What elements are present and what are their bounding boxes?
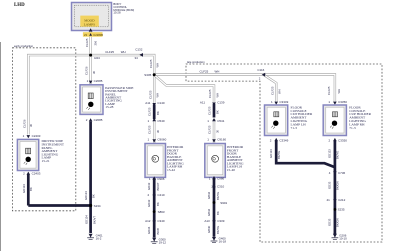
svg-text:15-28: 15-28 <box>113 11 121 15</box>
svg-text:A11: A11 <box>145 101 150 105</box>
svg-text:4234: 4234 <box>94 56 100 60</box>
svg-text:WH: WH <box>155 63 159 68</box>
svg-text:CLF25: CLF25 <box>148 90 152 99</box>
wire label CLF25 30 chain1 <box>148 125 160 134</box>
svg-text:C2685: C2685 <box>94 118 103 122</box>
svg-text:71-3: 71-3 <box>349 126 356 130</box>
floor console LH drop wire labels CLF25 WH <box>270 86 281 95</box>
wire label GD34 BK/B chain1 ground <box>147 226 160 234</box>
ground wire passenger lamp down <box>89 122 92 206</box>
svg-text:30: 30 <box>156 129 160 133</box>
svg-text:41: 41 <box>327 198 331 202</box>
svg-text:C9160: C9160 <box>217 137 226 141</box>
svg-text:306: 306 <box>93 40 97 45</box>
svg-text:CLF25: CLF25 <box>148 107 152 116</box>
ground wire floor console LH to junction <box>276 141 335 168</box>
svg-text:CLF26: CLF26 <box>85 66 89 75</box>
connector A12 C340 <box>145 219 165 224</box>
svg-text:early production: early production <box>14 44 34 48</box>
BCM name label <box>113 2 134 14</box>
svg-text:CLF25: CLF25 <box>148 125 152 134</box>
door handle RH name label <box>167 145 184 172</box>
svg-text:BK/YE: BK/YE <box>336 151 340 159</box>
wire S305 to door handle lamp LH drop <box>155 75 214 102</box>
wire label CLF25 BK chain1 thick <box>148 107 160 116</box>
wire label GD134 BK passenger ground <box>84 191 95 200</box>
svg-text:GD134: GD134 <box>22 184 26 193</box>
wire S305 down to C140 <box>153 75 155 104</box>
connector 1 C540 <box>148 118 165 123</box>
MOOD LAMPS highlighted label <box>80 16 99 27</box>
svg-text:LHD: LHD <box>14 3 25 8</box>
ground wire driver lamp down <box>27 175 30 206</box>
svg-text:C541: C541 <box>217 119 225 123</box>
svg-text:C212: C212 <box>338 198 346 202</box>
svg-text:CLF25: CLF25 <box>207 125 211 134</box>
svg-text:CLF25: CLF25 <box>200 69 209 73</box>
svg-text:GB42: GB42 <box>207 208 211 216</box>
ground G206 <box>332 233 348 240</box>
splice S234 <box>89 204 101 208</box>
svg-text:GD134: GD134 <box>85 215 89 224</box>
svg-text:A13: A13 <box>204 219 210 223</box>
svg-text:15-21: 15-21 <box>42 159 50 163</box>
ground G400 <box>211 237 227 244</box>
wire label CLF25 30 chain2 <box>207 125 219 134</box>
floor console LH name label <box>291 105 313 129</box>
ground wire floor console RH to G206 <box>334 141 337 235</box>
interior front door handle ambient lighting lamp LH box <box>205 144 226 178</box>
svg-text:C410: C410 <box>157 193 165 197</box>
interior front door handle ambient lighting lamp RH box <box>145 144 166 178</box>
svg-text:BK: BK <box>156 202 160 206</box>
svg-text:CLF25: CLF25 <box>85 38 89 47</box>
connector 1 C3350 <box>328 100 347 105</box>
connector 1 C3349 <box>271 100 289 105</box>
connector A11 C139 <box>200 101 225 106</box>
body control module BCM box <box>72 3 112 31</box>
late production region <box>186 60 382 242</box>
wire chain2 C541 to C9160 <box>213 119 215 144</box>
svg-text:LAMPS: LAMPS <box>84 23 95 27</box>
svg-text:BK: BK <box>216 211 220 215</box>
svg-text:34: 34 <box>135 56 139 60</box>
svg-text:S305: S305 <box>144 73 151 77</box>
wire label GD33 BK/GN to G206 <box>328 218 340 227</box>
wire chain1 C540 to C9060 <box>153 119 155 144</box>
svg-text:GD33: GD33 <box>328 218 332 226</box>
svg-text:WH: WH <box>215 69 220 73</box>
wire label GD43 BK chain1 lower <box>147 199 160 207</box>
passenger chain wire label CLF26 30 <box>85 66 96 75</box>
svg-text:23: 23 <box>84 33 87 37</box>
ground bus to G401 <box>28 206 90 234</box>
svg-text:GD43: GD43 <box>147 182 151 190</box>
svg-text:CLF26: CLF26 <box>23 119 27 128</box>
svg-text:C339: C339 <box>217 219 225 223</box>
svg-text:71-3: 71-3 <box>291 126 298 130</box>
splice junction S234a <box>89 54 100 60</box>
svg-text:30: 30 <box>216 129 220 133</box>
connector 2 C2403 <box>23 172 41 176</box>
svg-text:BK/YE: BK/YE <box>277 151 281 159</box>
svg-text:WH: WH <box>337 89 341 94</box>
wire label CLF25 306 vertical <box>85 38 97 47</box>
connector 2 C310 <box>211 184 224 189</box>
connector 2 C2685 <box>86 118 103 122</box>
pin 23 C2280B highlighted label <box>83 32 103 37</box>
svg-text:BK/VT: BK/VT <box>92 216 96 224</box>
splice S235 <box>334 208 345 212</box>
early production region <box>12 44 75 211</box>
floor console cup holder ambient lighting lamp RH box <box>323 105 346 136</box>
connector 2 C410 <box>148 192 165 197</box>
svg-text:C2403: C2403 <box>32 172 41 176</box>
svg-text:BK/YE: BK/YE <box>216 226 220 234</box>
svg-text:CLF25: CLF25 <box>208 89 212 98</box>
svg-text:C3349: C3349 <box>279 138 288 142</box>
splice S901 <box>213 201 228 205</box>
svg-text:BK/GN: BK/GN <box>336 218 340 227</box>
svg-text:GD33: GD33 <box>328 181 332 189</box>
inline connector C132 <box>135 47 144 59</box>
connector A11 C140 <box>145 101 165 106</box>
ground G300 <box>151 237 167 244</box>
svg-text:C986: C986 <box>217 177 225 181</box>
svg-text:GD34: GD34 <box>147 226 151 234</box>
inline connector C116 <box>257 68 265 80</box>
svg-text:30: 30 <box>29 123 33 127</box>
svg-text:S863: S863 <box>158 210 165 214</box>
svg-text:BK/B: BK/B <box>156 228 160 235</box>
passenger side lamp name label <box>105 86 133 109</box>
svg-text:16-2: 16-2 <box>96 237 102 241</box>
connector 1 C2403 <box>23 134 41 138</box>
wire label GD134 BK driver ground <box>22 184 33 193</box>
svg-text:BK/GN: BK/GN <box>336 181 340 190</box>
svg-text:BK/VT: BK/VT <box>156 182 160 190</box>
connector 4 C736 <box>329 171 346 175</box>
svg-text:S234: S234 <box>94 204 101 208</box>
svg-text:C132: C132 <box>135 47 143 51</box>
svg-text:WH: WH <box>278 89 282 94</box>
wire label GD134 BK to G401 <box>85 215 97 224</box>
wire BCM pin23 down to splice S234a <box>89 31 91 54</box>
connector 1 C9160 <box>207 137 226 142</box>
connector 2 C3349 <box>270 138 289 143</box>
connector A13 C339 <box>204 219 224 224</box>
svg-text:WH: WH <box>156 93 160 98</box>
svg-text:WH: WH <box>215 93 219 98</box>
svg-text:C116: C116 <box>257 68 264 72</box>
floor console RH name label <box>349 105 371 129</box>
svg-text:C9060: C9060 <box>157 137 166 141</box>
wire S305 to C116 and floor console lamp RH <box>155 75 335 103</box>
svg-text:C340: C340 <box>157 219 165 223</box>
svg-text:CLF25: CLF25 <box>270 86 274 95</box>
svg-text:BK: BK <box>92 194 96 198</box>
connector 1 C9060 <box>148 137 167 142</box>
svg-text:10-10: 10-10 <box>339 236 347 240</box>
svg-text:30: 30 <box>92 70 96 74</box>
ground chain door handle LH upper <box>213 104 216 118</box>
connector arrow into BCM <box>89 28 93 31</box>
page edge mark <box>0 42 1 251</box>
door handle LH name label <box>227 145 244 172</box>
svg-text:C3350: C3350 <box>338 138 347 142</box>
svg-text:CLF25: CLF25 <box>327 86 331 95</box>
connector 1 C2685 <box>87 79 103 84</box>
wire label GD33 BK/GN below C736 <box>328 181 340 190</box>
svg-text:late production: late production <box>187 60 205 64</box>
svg-text:GD133: GD133 <box>328 149 332 158</box>
svg-text:C2685: C2685 <box>94 79 103 83</box>
svg-text:CLF25: CLF25 <box>105 50 114 54</box>
svg-text:BK: BK <box>156 111 160 115</box>
wire label CLF25 WH to C116 <box>200 69 220 73</box>
wire splice down to passenger side lamp <box>89 55 91 84</box>
splice S305 <box>144 73 155 77</box>
svg-text:C140: C140 <box>157 101 165 105</box>
svg-text:C2280B: C2280B <box>93 33 103 37</box>
wire label GB40 BK/YE chain2 ground <box>207 225 220 234</box>
svg-text:C310: C310 <box>217 185 225 189</box>
wire label GB42 BK chain2 lower <box>207 208 220 216</box>
wire label CLF25 WH horizontal <box>105 50 125 54</box>
svg-text:15-42: 15-42 <box>167 168 175 172</box>
svg-text:CLF25: CLF25 <box>207 106 211 115</box>
svg-text:C139: C139 <box>217 101 225 105</box>
wire splice to driver side lamp <box>28 55 89 134</box>
connector 41 C212 <box>327 198 346 202</box>
svg-text:C540: C540 <box>157 119 165 123</box>
driver side instrument panel ambient lighting lamp box <box>17 139 38 170</box>
svg-text:GD43: GD43 <box>147 199 151 207</box>
wire label GD43 BK/VT chain1 <box>147 182 160 190</box>
floor console RH drop wire labels CLF25 WH <box>327 86 341 95</box>
connector 2 C3350 <box>329 138 348 143</box>
svg-text:A12: A12 <box>145 219 151 223</box>
wire label CLF25 BK chain2 thick <box>207 106 219 115</box>
svg-text:C736: C736 <box>338 171 346 175</box>
wire splice right to C132 and down to S305 <box>91 55 155 74</box>
wire label CLF25 WH on drop to S305 <box>149 59 159 68</box>
wire label GD133 BK/YE floor RH ground <box>328 149 340 159</box>
door handle LH drop wire labels CLF25 WH <box>208 89 219 98</box>
svg-text:GB42: GB42 <box>207 191 211 199</box>
svg-text:S235: S235 <box>338 208 345 212</box>
svg-text:15-40: 15-40 <box>227 168 235 172</box>
connector 1 C986 <box>209 176 225 181</box>
door handle RH drop wire labels CLF25 WH <box>148 90 159 99</box>
svg-text:S901: S901 <box>220 201 227 205</box>
wire branch C116 to floor console lamp LH <box>264 75 276 103</box>
driver side lamp name label <box>42 139 65 163</box>
svg-text:C2403: C2403 <box>32 134 41 138</box>
svg-text:BK: BK <box>216 110 220 114</box>
svg-text:A11: A11 <box>200 101 205 105</box>
svg-text:19-12: 19-12 <box>159 240 167 244</box>
svg-text:CLF25: CLF25 <box>149 59 153 68</box>
svg-text:WH: WH <box>121 50 126 54</box>
passenger side instrument panel ambient lighting lamp box <box>80 85 103 115</box>
ground chain door handle RH upper <box>153 105 156 120</box>
svg-text:C906: C906 <box>157 177 165 181</box>
wire label GB42 BK/YE chain2 <box>207 191 220 200</box>
svg-text:GD133: GD133 <box>269 149 273 158</box>
svg-text:16-18: 16-18 <box>219 240 227 244</box>
svg-text:15-28: 15-28 <box>105 105 113 109</box>
svg-text:BK/YE: BK/YE <box>216 192 220 200</box>
svg-text:C3350: C3350 <box>338 100 347 104</box>
splice S863 <box>153 210 165 214</box>
ground chain door handle LH lower <box>213 177 216 237</box>
ground G401 <box>87 234 103 241</box>
svg-text:GB40: GB40 <box>207 225 211 233</box>
driver side lamp wire label CLF26 30 <box>23 119 34 128</box>
ground chain door handle RH lower <box>153 178 156 238</box>
wire label GD133 BK/YE floor LH ground <box>269 149 281 159</box>
svg-text:GD134: GD134 <box>84 191 88 200</box>
connector 1 C541 <box>207 118 224 123</box>
svg-text:C3349: C3349 <box>279 100 288 104</box>
connector 1 C906 <box>149 176 165 181</box>
svg-text:BK: BK <box>29 187 33 191</box>
floor console cup holder ambient lighting lamp LH box <box>265 105 288 136</box>
